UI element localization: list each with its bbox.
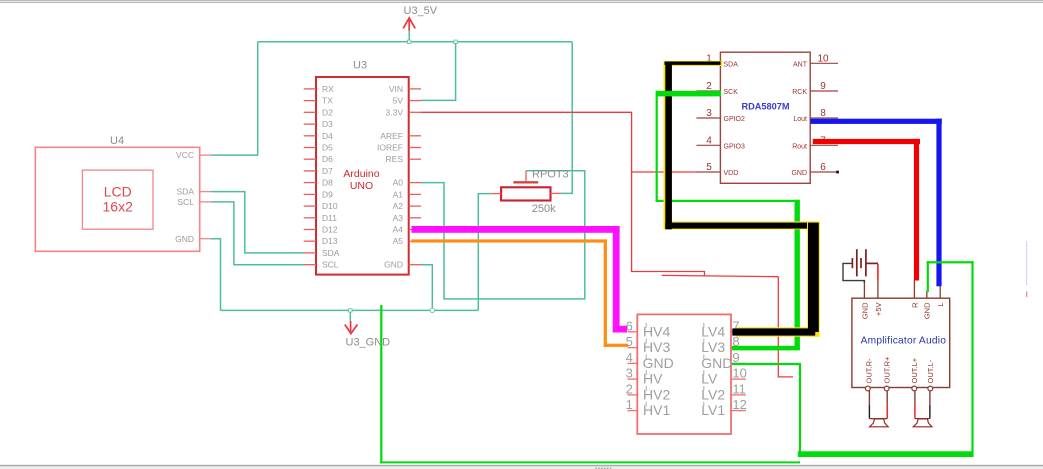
wire U3 3.3V to RDA VDD [421,112,705,275]
wire U4 SCL to U3 SCL [211,202,305,265]
svg-text:GND: GND [643,355,674,371]
pin GND [200,238,211,240]
wire orange A5 to HV3 [412,239,629,347]
lv left stubs [628,332,638,411]
svg-text:10: 10 [817,54,829,65]
node black dot at rda pin6 stub end [836,171,839,174]
potentiometer RPOT3 body [501,187,550,200]
wire blue thick Lout to amp L [810,119,941,287]
window bottom edge [0,465,1043,467]
svg-text:GND: GND [701,355,732,371]
svg-text:IOREF: IOREF [377,143,403,153]
wire rail right end to RPOT3 right terminal [561,42,573,194]
wire red down to LV pin10 area [778,277,793,377]
svg-text:D3: D3 [322,119,333,129]
svg-text:D5: D5 [322,143,333,153]
svg-text:TX: TX [322,96,333,106]
wire U4 SDA to U3 SDA [211,192,305,253]
svg-text:HV4: HV4 [643,323,670,339]
wire stub to U3_GND arrow [349,310,351,321]
svg-text:OUT.L+: OUT.L+ [910,357,919,383]
rda pin 3 GPIO2 [696,117,720,119]
wire battery plus to amp +5V (red) [877,264,879,281]
potentiometer RPOT3 wiper bar [513,181,538,183]
amp bottom pin labels [864,356,935,384]
svg-text:D11: D11 [322,213,337,223]
svg-text:8: 8 [820,108,826,119]
svg-text:U4: U4 [110,135,124,147]
level converter body [637,314,731,434]
svg-text:Lout: Lout [793,116,807,123]
wire slanted red segment [662,275,779,276]
svg-text:HV3: HV3 [643,339,670,355]
svg-text:D10: D10 [322,201,338,211]
wire green thick vertical to LV3 [795,200,800,349]
svg-text:GND: GND [923,302,932,319]
ground symbol U3_GND arrow [345,321,358,334]
wire U4 GND down to rail [211,239,221,311]
svg-text:A3: A3 [393,213,404,223]
svg-text:D7: D7 [322,166,333,176]
wire magenta A4 to HV4 [412,226,628,333]
rda pin 5 VDD [696,171,720,173]
svg-text:OUT.L-: OUT.L- [926,359,935,383]
svg-text:4: 4 [626,350,633,365]
amp top pin labels [860,302,945,319]
svg-text:RCK: RCK [792,89,807,96]
svg-text:2: 2 [706,81,712,92]
svg-text:LV4: LV4 [701,323,725,339]
pin SCL [200,201,211,203]
svg-text:D4: D4 [322,131,333,141]
svg-text:Amplificator Audio: Amplificator Audio [861,335,947,346]
svg-text:VIN: VIN [389,84,403,94]
wire red thick Rout to amp R [813,139,920,281]
svg-text:SCL: SCL [177,197,194,207]
svg-text:OUT.R+: OUT.R+ [883,356,892,384]
svg-text:GND: GND [384,260,403,270]
svg-text:RDA5807M: RDA5807M [742,102,790,112]
svg-text:GND: GND [175,234,194,244]
lcd U4 body [35,147,199,251]
svg-text:A0: A0 [393,178,404,188]
svg-text:A5: A5 [393,236,404,246]
rda5807m body [720,52,810,183]
arduino left pin stubs [304,89,316,265]
arduino U3 body [316,77,409,275]
wire U3_5V rail [258,41,573,43]
wire thin green GND net from LV pin9 [380,261,973,463]
amp top stubs [864,280,940,298]
wire U3_GND rail [221,309,479,311]
svg-text:U3_GND: U3_GND [346,336,391,348]
svg-text:9: 9 [732,350,739,365]
rda pin 4 GPIO3 [696,144,720,146]
wire green thin horizontal [656,200,800,202]
pin SDA [200,191,211,193]
svg-text:1: 1 [626,397,633,412]
svg-text:+5V: +5V [874,303,883,317]
svg-text:GPIO3: GPIO3 [724,143,746,150]
svg-text:6: 6 [820,162,826,173]
svg-text:9: 9 [820,81,826,92]
svg-text:UNO: UNO [350,180,373,192]
speaker SPK2 cone [913,419,932,427]
node junction square on 5V rail (arrow) [408,40,411,43]
svg-text:12: 12 [732,397,746,412]
svg-text:A2: A2 [393,201,404,211]
rda pin 1 SDA [696,62,720,64]
svg-text:5: 5 [706,162,712,173]
svg-text:SDA: SDA [177,187,195,197]
lv inner tick marks [646,323,704,407]
wire A0 to RPOT3 wiper [421,171,585,299]
svg-text:LV2: LV2 [701,386,725,402]
rda pin 9 RCK [810,90,838,92]
svg-text:OUT.R-: OUT.R- [864,358,873,384]
svg-text:D9: D9 [322,189,333,199]
svg-text:L: L [936,303,945,307]
pin VCC [200,154,211,156]
svg-text:D6: D6 [322,154,333,164]
rda pin 2 SCK [696,90,720,92]
wire green thin vertical [656,91,658,202]
arduino right pin labels [377,84,403,270]
svg-text:VDD: VDD [724,170,739,177]
svg-text:R: R [910,302,919,308]
svg-text:LV1: LV1 [701,402,725,418]
svg-text:A4: A4 [393,225,404,235]
svg-text:RPOT3: RPOT3 [532,169,569,181]
svg-text:D8: D8 [322,178,333,188]
wire green thick from RDA SCK [657,91,722,97]
rda pin 6 GND [810,171,838,173]
speaker SPK2 leads [914,391,916,405]
svg-text:RX: RX [322,84,334,94]
svg-text:10: 10 [732,366,746,381]
svg-text:RES: RES [386,154,404,164]
svg-text:4: 4 [706,136,712,147]
wire RPOT3 left terminal down to GND rail [478,194,491,311]
svg-text:D2: D2 [322,107,333,117]
speaker SPK1 leads [868,391,870,405]
node junction square on GND rail [349,309,352,312]
svg-text:GND: GND [860,302,869,319]
svg-text:Rout: Rout [792,143,807,150]
wire rail to U3 5V [421,42,456,101]
potentiometer RPOT3 left stub [491,193,501,195]
wire yellow under black (SDA net) [664,61,820,337]
svg-text:SCL: SCL [322,260,339,270]
node junction circle on GND rail [430,308,434,312]
svg-text:Arduino: Arduino [343,168,379,180]
rda pin 8 Lout [810,117,838,119]
wire black thick (SDA net) [665,62,819,336]
svg-text:11: 11 [732,381,746,396]
svg-text:3.3V: 3.3V [386,107,404,117]
potentiometer RPOT3 wiper stub [525,171,527,181]
svg-text:3: 3 [706,108,712,119]
svg-text:SCK: SCK [724,89,739,96]
lv right pin numbers [732,318,746,412]
arduino left pin labels [322,84,340,270]
svg-text:HV2: HV2 [643,386,670,402]
amplifier body [852,298,950,387]
svg-text:ANT: ANT [793,61,808,68]
svg-text:SDA: SDA [724,61,739,68]
node junction square on 5V rail (5V drop) [454,40,457,43]
lv right stubs [731,332,746,411]
svg-text:VCC: VCC [176,150,194,160]
wire branch to RDA VDD pin5 [632,171,697,173]
svg-text:3: 3 [626,366,633,381]
faint artifacts at right edge [1026,241,1027,285]
wire battery minus to amp GND (dark) [843,263,864,283]
lcd U4 screen [82,170,153,229]
speaker SPK1 cone [870,419,889,427]
wire U3 GND to rail [421,265,432,311]
potentiometer RPOT3 right stub [551,192,561,194]
svg-text:16x2: 16x2 [103,199,134,215]
svg-text:HV1: HV1 [643,402,670,418]
svg-text:D13: D13 [322,236,338,246]
rda pin 10 ANT [810,62,838,64]
wire green thick into LV3 pin [732,346,800,351]
wire rail to U4 VCC [211,42,258,155]
rda pin 7 Rout [810,144,838,146]
svg-text:A1: A1 [393,189,404,199]
svg-text:LCD: LCD [104,184,132,200]
window top edge [0,0,1043,2]
arduino right pin stubs [409,89,421,265]
svg-text:U3: U3 [353,60,367,72]
lv left pin numbers [626,318,633,412]
svg-text:LV3: LV3 [701,339,725,355]
svg-text:GND: GND [791,170,807,177]
svg-text:SDA: SDA [322,248,340,258]
lv right pin labels [701,323,732,418]
svg-text:D12: D12 [322,225,338,235]
svg-text:250k: 250k [532,203,556,215]
power symbol U3_5V arrow [403,18,415,31]
wire stub to U3_5V arrow [408,31,410,42]
svg-text:GPIO2: GPIO2 [724,116,746,123]
battery symbol [852,249,878,276]
svg-text:U3_5V: U3_5V [404,5,438,17]
lv left pin labels [643,323,674,418]
svg-text:2: 2 [626,381,633,396]
amp bottom pin circles [865,386,932,391]
svg-text:AREF: AREF [380,131,403,141]
svg-text:5V: 5V [393,96,404,106]
